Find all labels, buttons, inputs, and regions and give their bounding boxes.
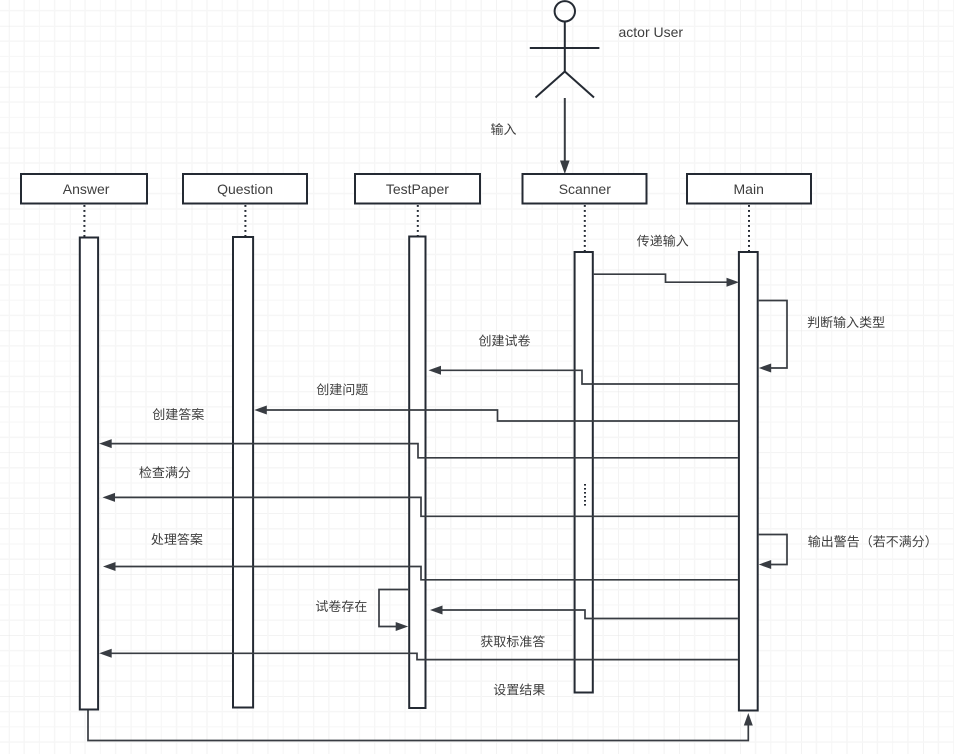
label 试卷存在 [316, 600, 367, 612]
svg-text:Question: Question [217, 181, 273, 197]
svg-text:Answer: Answer [63, 181, 110, 197]
lifeline Answer (dashed) [83, 205, 85, 237]
object box TestPaper [355, 174, 480, 204]
label 传递输入 [637, 235, 688, 247]
label 判断输入类型 [808, 316, 885, 328]
label 获取标准答 [481, 635, 545, 647]
label 创建试卷 [479, 334, 530, 346]
object box Main [687, 174, 811, 204]
activation bar Main [739, 252, 758, 711]
label 处理答案 [151, 533, 202, 545]
svg-text:TestPaper: TestPaper [386, 181, 449, 197]
lifeline Question (dashed) [244, 205, 246, 236]
message 处理答案 Main to Answer [116, 567, 738, 580]
object box Answer [21, 174, 147, 204]
message 输入 arrow from actor to Scanner [560, 98, 570, 174]
dotted fragment on Scanner bar [584, 484, 586, 506]
label 检查满分 [139, 466, 190, 478]
svg-text:actor User: actor User [619, 24, 684, 40]
self message 试卷存在 on TestPaper [379, 590, 408, 627]
lifeline Main (dashed) [748, 205, 750, 251]
activation bar Question [233, 237, 253, 708]
message 传递输入 Scanner to Main [594, 274, 727, 282]
bottom return message Answer to Main [88, 711, 748, 741]
lifeline Scanner (dashed) [584, 205, 586, 251]
activation bar Scanner [575, 252, 593, 693]
actor User (stick figure) [530, 1, 600, 97]
label 创建答案 [153, 408, 204, 420]
svg-text:Main: Main [734, 181, 764, 197]
label 输入 [491, 123, 516, 135]
activation bar Answer [80, 238, 98, 710]
self message 判断输入类型 on Main [759, 301, 787, 369]
label 设置结果 [494, 683, 545, 695]
lifeline TestPaper (dashed) [417, 205, 419, 236]
activation bar TestPaper [409, 237, 425, 709]
object box Question [183, 174, 307, 204]
message 检查满分 Main to Answer [115, 497, 738, 516]
message 创建试卷 Main to TestPaper [441, 370, 738, 384]
message 获取标准答 Main to TestPaper [443, 610, 738, 619]
self message 输出警告 on Main [759, 535, 787, 565]
message 创建答案 Main to Answer [112, 444, 738, 458]
message 创建问题 Main to Question [267, 410, 738, 421]
object box Scanner [523, 174, 647, 204]
label 输出警告（若不满分） [808, 535, 928, 547]
svg-text:Scanner: Scanner [559, 181, 611, 197]
unlabeled return message Main to Answer [112, 653, 738, 659]
label 创建问题 [317, 383, 368, 395]
